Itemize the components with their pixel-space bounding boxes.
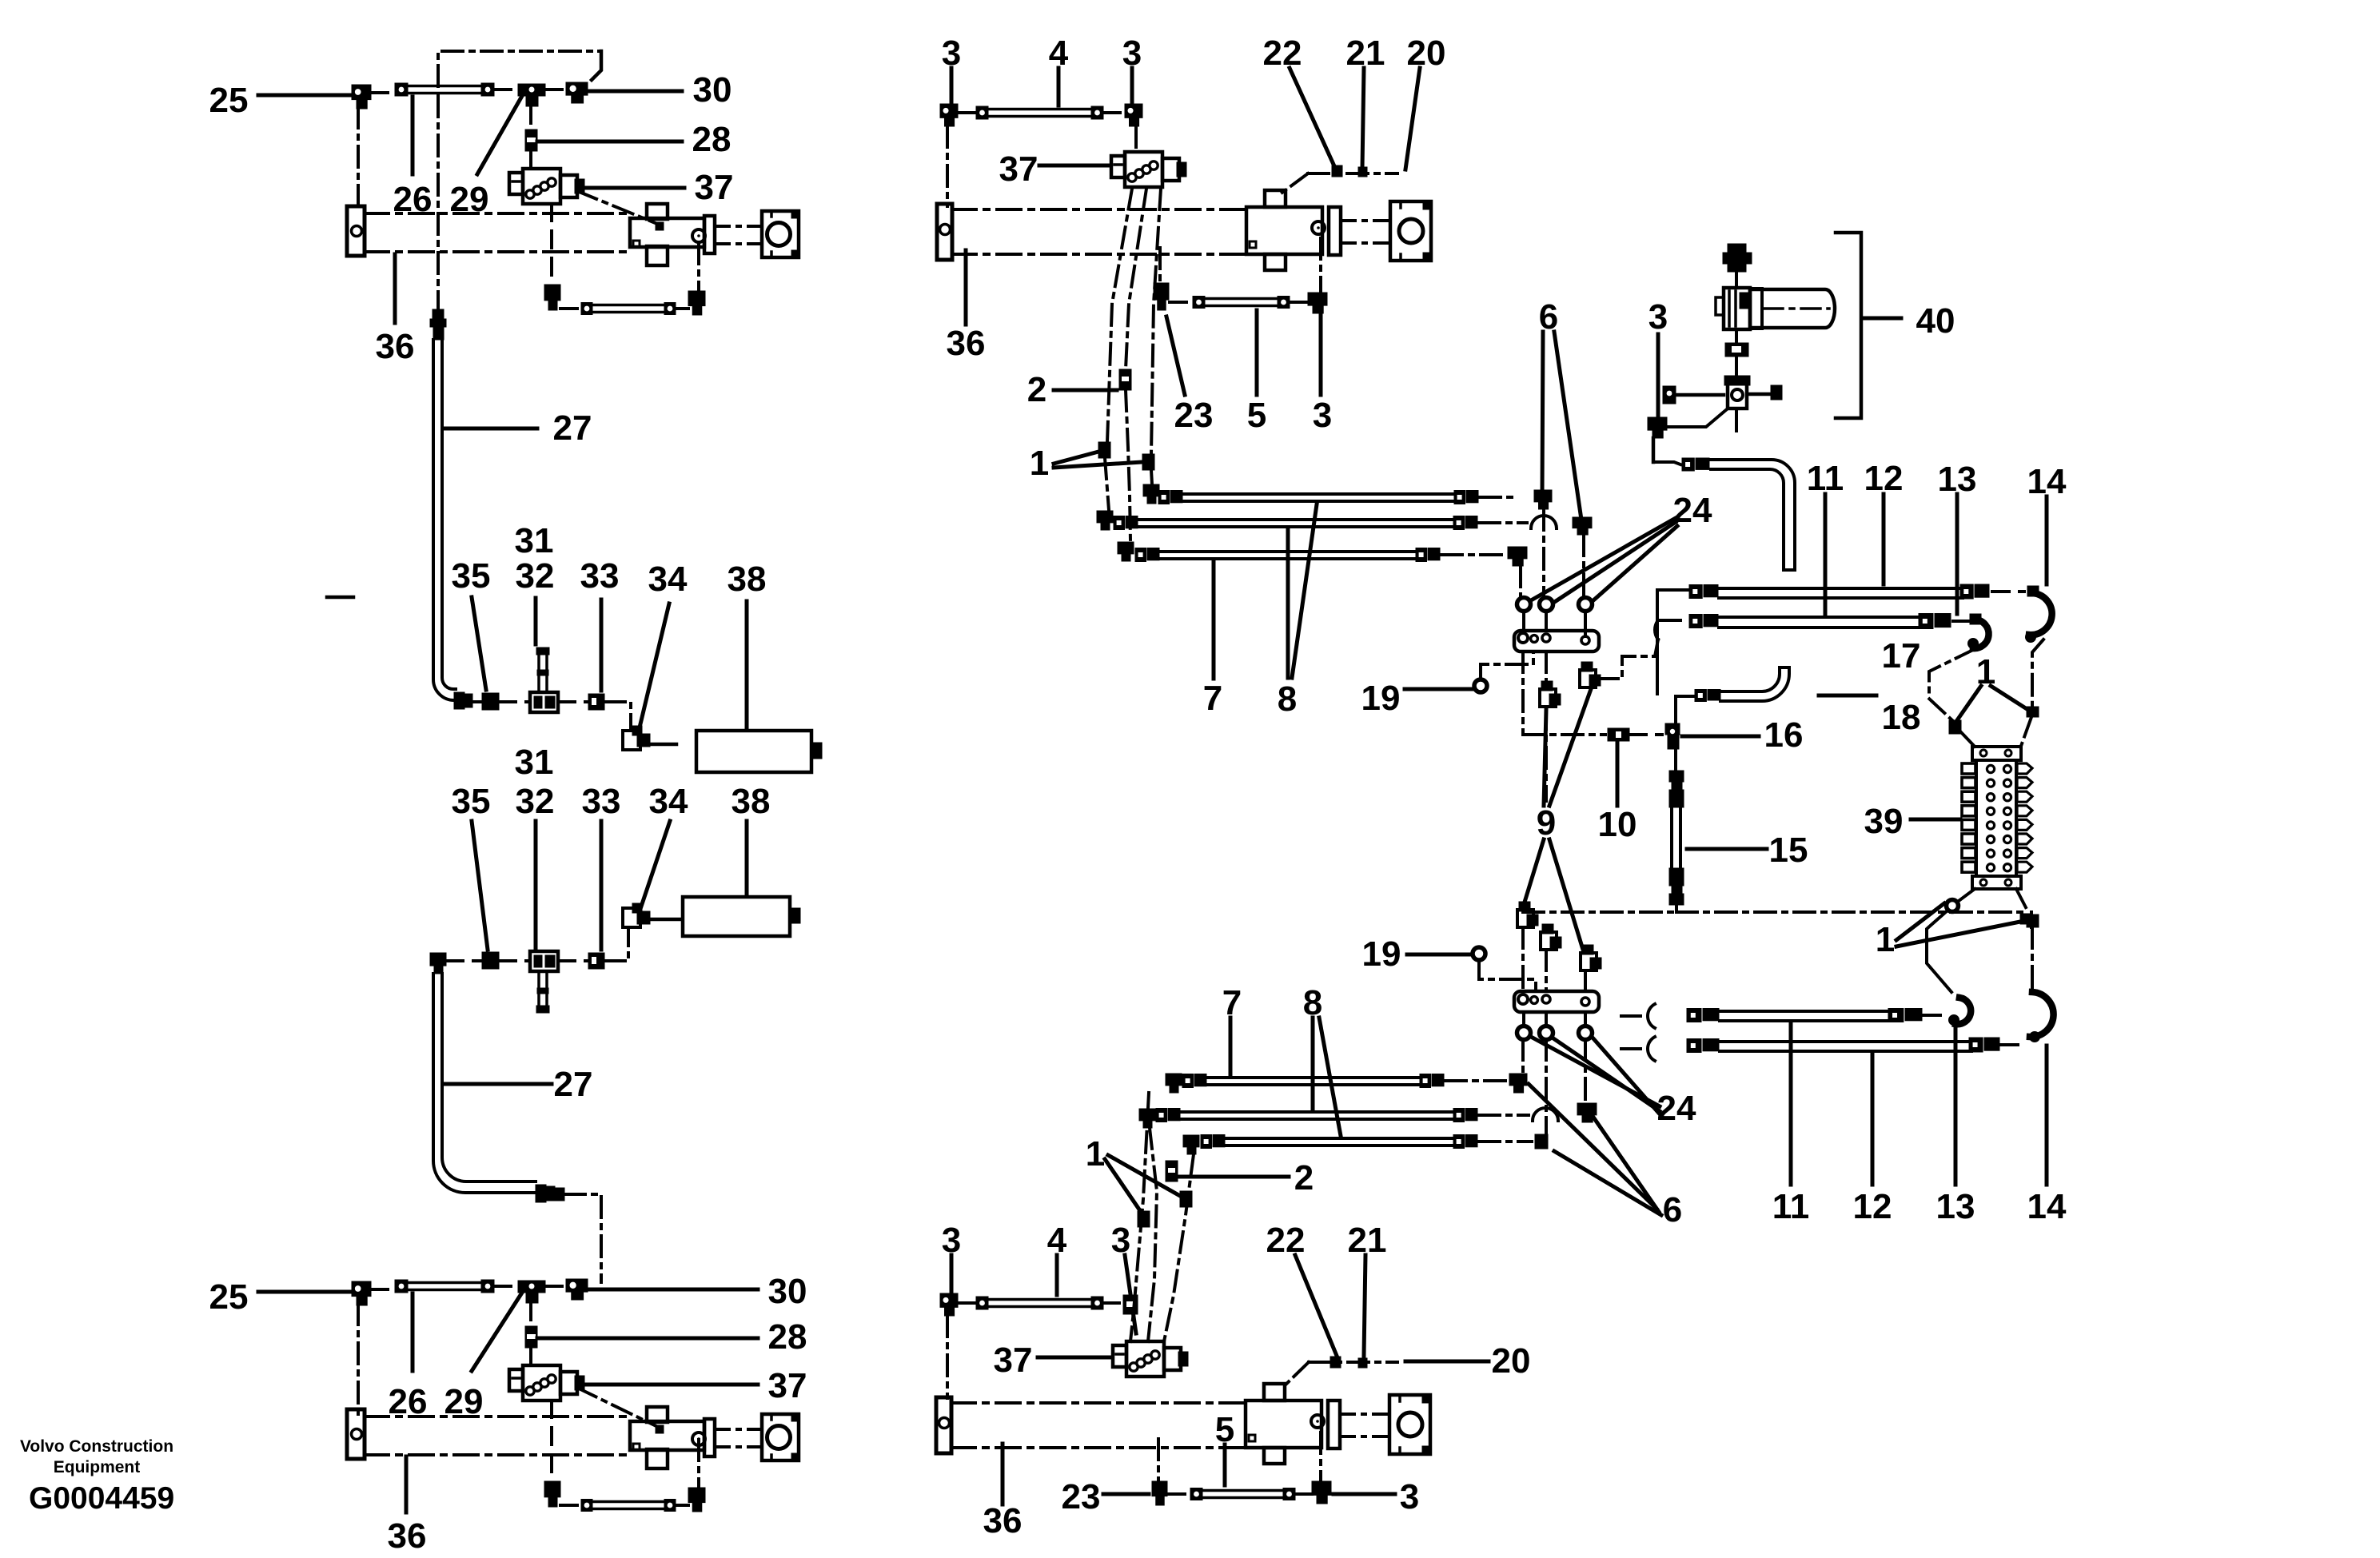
- leader line to 37: [577, 1383, 758, 1387]
- leader line 12: [1871, 1053, 1875, 1185]
- wire x1934 below elbow: [1545, 708, 1548, 801]
- leader line 7: [1229, 1018, 1233, 1074]
- svg-text:16: 16: [1764, 715, 1804, 755]
- svg-text:25: 25: [209, 1277, 249, 1317]
- leader line to 20: [1405, 1360, 1489, 1364]
- fitting 1 (lower block right): [2027, 914, 2039, 927]
- cylinder (BR) port boss: [1311, 1415, 1324, 1428]
- cylinder (BR) rod-end solid section: [1246, 1401, 1322, 1448]
- leader line 24c: [1593, 1038, 1661, 1116]
- svg-text:24: 24: [1657, 1089, 1696, 1128]
- crossover arc: [1531, 516, 1557, 528]
- lever 31 (TL): [537, 652, 540, 692]
- svg-text:Equipment: Equipment: [54, 1458, 141, 1476]
- wire dash elbow-tube (TL): [560, 307, 581, 310]
- leader line 39: [1911, 818, 1960, 822]
- wire drop from rod boss (BL): [697, 1440, 700, 1488]
- leader line 23: [1166, 317, 1185, 395]
- cylinder (BL) rod clevis: [762, 1414, 799, 1460]
- wire pilot dash row (TR): [1308, 172, 1397, 175]
- wire dash to arc: [1479, 521, 1527, 524]
- tee fitting 29 (TL): [518, 84, 545, 96]
- leader line to 28: [537, 1337, 758, 1341]
- wire stub2: [1621, 1047, 1640, 1050]
- wire dash 28-valve: [529, 1348, 532, 1365]
- wire to rod boss: [1319, 1432, 1322, 1481]
- hook hose 14 (lower): [2030, 992, 2054, 1037]
- grommet 24 c: [1579, 598, 1593, 612]
- wire dash to arc: [1479, 1114, 1529, 1117]
- wire dash: [958, 1301, 976, 1305]
- wire stem: [1735, 273, 1738, 288]
- svg-text:33: 33: [582, 782, 621, 821]
- leader line 5: [1223, 1444, 1227, 1485]
- elbow fitting 9b (upper): [1580, 670, 1596, 687]
- elbow tail: [1652, 438, 1656, 462]
- leader line 29: [472, 1293, 522, 1371]
- leader line 9 down-right: [1549, 839, 1583, 950]
- fittings 22/21 on pilot line (TR): [1332, 165, 1342, 177]
- cartridge centerline: [1764, 307, 1829, 310]
- leader line 7: [1212, 562, 1216, 679]
- leader line 14: [2045, 496, 2049, 584]
- path 13 to block: [1929, 649, 1975, 721]
- leader line 1a: [1054, 452, 1098, 464]
- svg-text:22: 22: [1263, 34, 1302, 73]
- svg-text:37: 37: [768, 1366, 807, 1405]
- hose 7 elbow: [1118, 542, 1134, 554]
- three pilot lines valve to hoses (TR): [1107, 189, 1132, 442]
- cylinder (TR) barrel phantom bottom edge: [952, 253, 1247, 256]
- cylinder (BR) barrel phantom top edge: [951, 1401, 1246, 1405]
- grommet 24 c (lower): [1579, 1026, 1593, 1040]
- leader line 35: [472, 597, 486, 690]
- svg-text:27: 27: [554, 1065, 593, 1104]
- leader line 24a: [1531, 518, 1676, 600]
- filter breather cap: [1728, 244, 1746, 253]
- wire dash to fitting: [1479, 1140, 1532, 1143]
- elbow fitting 25 (TL): [352, 85, 371, 100]
- hook hose 14 (upper): [2029, 593, 2052, 635]
- leader line 36: [405, 1456, 409, 1512]
- cylinder (BL) end cap: [347, 1409, 365, 1459]
- wire dash 32-33 (BL): [558, 959, 588, 962]
- cylinder (BL) piston rod phantom: [715, 1428, 762, 1431]
- cylinder (TR) rod clevis: [1390, 201, 1431, 261]
- leader line 3R: [1125, 1255, 1136, 1333]
- cylinder (TL) clamp bracket: [647, 204, 668, 219]
- leader line 15: [1687, 847, 1767, 851]
- wire valve drop to elbow (TL): [550, 204, 553, 285]
- elbow fitting 3 (BR tube left): [940, 1293, 958, 1307]
- wire into hose 12: [1660, 619, 1685, 622]
- wire dash: [1290, 301, 1308, 304]
- hose 12 (upper): [1689, 615, 1702, 628]
- wire dash T29-elbow30: [545, 88, 566, 91]
- wire corner 33-34 (TL): [604, 702, 631, 729]
- elbow fitting 23 (TR): [1154, 283, 1169, 300]
- bulkhead plate (upper): [1514, 631, 1599, 651]
- leader line 34: [640, 604, 669, 727]
- wire drop to valve (TR): [1134, 126, 1138, 152]
- leader line 8 to bottom: [1319, 1018, 1341, 1136]
- leader line 1b: [1108, 1155, 1180, 1196]
- row y1141: [1523, 910, 1676, 914]
- mounting bracket phantom (TL): [438, 51, 601, 86]
- wire dash: [1103, 111, 1125, 114]
- fitting 35 (TL): [482, 693, 499, 710]
- svg-text:23: 23: [1062, 1477, 1101, 1516]
- elbow fitting 3 (TR tube left): [940, 104, 958, 118]
- port marker on rod section (TL): [656, 222, 664, 230]
- svg-text:23: 23: [1174, 396, 1214, 435]
- grommet 24 a (lower): [1517, 1026, 1531, 1040]
- wire dash: [1103, 1301, 1119, 1305]
- svg-text:20: 20: [1492, 1341, 1531, 1381]
- grommet 24 a: [1517, 598, 1531, 612]
- boundary arcs left of hoses (lower): [1648, 1004, 1655, 1028]
- svg-text:8: 8: [1278, 679, 1297, 719]
- svg-text:2: 2: [1294, 1158, 1314, 1197]
- svg-text:3: 3: [1400, 1477, 1419, 1516]
- svg-text:37: 37: [695, 168, 734, 207]
- hose 27 (TL): [433, 340, 456, 700]
- cylinder (TL) gland plate: [704, 216, 715, 253]
- leader line 19: [1407, 953, 1471, 957]
- svg-text:20: 20: [1407, 34, 1446, 73]
- leader line 31/32: [534, 598, 538, 644]
- wire cyl drop to 23: [1157, 1439, 1160, 1481]
- leader line 38: [745, 601, 749, 727]
- leader line 16: [1682, 735, 1759, 739]
- svg-text:36: 36: [983, 1501, 1023, 1540]
- cylinder (BL) barrel phantom top edge: [365, 1415, 632, 1418]
- cylinder (TL) rod-end solid section: [630, 218, 704, 247]
- svg-text:10: 10: [1598, 805, 1637, 844]
- elbow fitting (BL lower tube right): [688, 1488, 705, 1503]
- leader line 6b: [1593, 1116, 1659, 1212]
- fitting 1b (TR): [1142, 454, 1154, 470]
- tee fitting 29 (BL): [518, 1281, 545, 1293]
- wire 1b to hose A elbow: [1151, 470, 1152, 484]
- leader line 23: [1103, 1492, 1149, 1496]
- wire x1934 to plate: [1545, 950, 1548, 991]
- svg-text:39: 39: [1864, 802, 1904, 841]
- svg-text:9: 9: [1537, 803, 1556, 843]
- elbow fitting 34 (BL): [623, 908, 640, 927]
- leader line 10: [1616, 743, 1620, 806]
- cylinder (TR) end cap: [937, 204, 952, 260]
- leader line 33: [600, 821, 604, 950]
- tube 5 under cylinder (BL): [581, 1500, 592, 1512]
- block top cap: [1972, 747, 2021, 760]
- valve 37 (BL): [523, 1365, 560, 1401]
- cylinder (BR) barrel phantom bottom edge: [951, 1446, 1246, 1449]
- svg-text:31: 31: [515, 743, 554, 782]
- leader line 6 up a: [1542, 332, 1543, 496]
- svg-text:32: 32: [516, 782, 555, 821]
- link 16 to hose 18: [1676, 696, 1694, 723]
- valve 37 (TL): [523, 169, 560, 204]
- cylinder (TL) end cap: [347, 206, 365, 256]
- wire x1983 to plate: [1584, 970, 1587, 991]
- cylinder (TL) piston rod phantom: [715, 225, 762, 228]
- svg-text:1: 1: [1030, 444, 1049, 483]
- elbow fitting 3 (BR below): [1312, 1481, 1331, 1495]
- wire dash: [1295, 1492, 1312, 1496]
- svg-text:14: 14: [2027, 1187, 2067, 1226]
- wire dash T29-elbow30: [545, 1285, 566, 1288]
- leader line 9 up-left: [1544, 710, 1546, 806]
- leader line 3R: [1130, 68, 1134, 104]
- fitting (x2542): [2027, 707, 2039, 717]
- grommet 24 b (lower): [1540, 1026, 1553, 1040]
- fitting 1b (BR): [1180, 1191, 1192, 1207]
- fitting 1 left (upper block): [1949, 720, 1961, 734]
- hose 12 (lower): [1687, 1039, 1701, 1053]
- cylinder (BL) rod-end solid section: [630, 1421, 704, 1450]
- tee fitting (filter base): [1728, 381, 1747, 408]
- cylinder (TR) rod-end solid section: [1246, 207, 1322, 254]
- fitting 9b (lower): [1541, 932, 1557, 950]
- link 34-38 (BL): [650, 918, 680, 922]
- three pilot lines hoses to valve (BR): [1130, 1093, 1149, 1341]
- svg-text:35: 35: [452, 556, 491, 596]
- leader line 1b: [1991, 686, 2028, 710]
- hose 7 elbow (lower): [1183, 1135, 1199, 1147]
- wire dash 25-tube: [371, 91, 395, 94]
- leader line 22: [1295, 1255, 1337, 1356]
- block section 3: [1962, 791, 1975, 802]
- valve 31/32 (TL): [530, 692, 558, 712]
- hose 17: [1711, 460, 1795, 570]
- wire down to hook14 region: [2030, 912, 2033, 927]
- leader line 17/18: [1819, 694, 1876, 698]
- elbow fitting 9a (upper): [1540, 689, 1556, 707]
- leader line 26: [411, 97, 415, 174]
- fitting 1a (TR): [1098, 442, 1110, 458]
- cylinder (TL) barrel phantom bottom edge: [365, 250, 632, 253]
- leader line 12: [1882, 494, 1886, 584]
- leader line 8 to top: [1292, 504, 1317, 678]
- hook hose 13 (upper): [1973, 620, 1989, 648]
- fitting 3 right (BR): [1123, 1295, 1138, 1314]
- cylinder (TR) clamp bracket: [1265, 190, 1286, 207]
- svg-text:36: 36: [947, 324, 986, 363]
- leader line to 30: [588, 1288, 758, 1292]
- leader line 6c: [1554, 1151, 1661, 1215]
- elbow fitting (BL lower tube left): [544, 1481, 560, 1497]
- wire 1a to hose B elbow: [1105, 458, 1109, 510]
- wire pilot dash row (BR): [1309, 1361, 1397, 1364]
- hook hose 13 (lower): [1955, 998, 1971, 1024]
- wire main drop line (TL): [437, 96, 440, 308]
- boundary L for hose 11: [1657, 590, 1688, 694]
- port plug right: [1771, 385, 1782, 400]
- wire drop to cylinder (TR): [946, 126, 949, 206]
- wire 19 link: [1481, 651, 1533, 678]
- wire junction dash row (BL): [446, 959, 483, 962]
- fitting 2 (BR): [1166, 1161, 1178, 1181]
- leader line 36: [1001, 1444, 1005, 1504]
- wire dash: [1953, 620, 1969, 623]
- svg-text:30: 30: [693, 70, 732, 110]
- leader line 1b: [1896, 921, 2024, 946]
- svg-text:37: 37: [994, 1341, 1033, 1380]
- tube 5 (TR): [1193, 297, 1205, 309]
- svg-text:31: 31: [515, 521, 554, 560]
- elbow fitting 25 (BL): [352, 1281, 371, 1297]
- wire pilot to clamp (BR): [1281, 1362, 1309, 1389]
- wire dash 25-tube: [371, 1288, 395, 1291]
- cylinder (BL) gland plate: [704, 1419, 715, 1456]
- wire to rod boss: [1319, 238, 1322, 293]
- wire valve to clamp (TL): [577, 191, 661, 225]
- wire 15 to row: [1675, 905, 1678, 912]
- leader line 4: [1057, 68, 1061, 106]
- leader line 40: [1863, 317, 1901, 321]
- wire row y919: [1523, 733, 1605, 736]
- leader line to 37: [1039, 164, 1110, 168]
- leader line 3L: [950, 68, 954, 104]
- elbow fitting (TL lower tube right): [688, 291, 705, 306]
- corner elbow (x1934 line): [1534, 490, 1552, 502]
- block section 4: [1962, 806, 1975, 816]
- svg-text:30: 30: [768, 1272, 807, 1311]
- svg-text:34: 34: [649, 782, 688, 821]
- hose 18: [1720, 667, 1789, 701]
- leader line 14: [2045, 1046, 2049, 1185]
- svg-text:28: 28: [768, 1317, 807, 1357]
- wire into block: [1960, 731, 1976, 748]
- cylinder (TR) piston rod phantom: [1341, 219, 1390, 222]
- wire junction dash row (TL): [472, 700, 483, 703]
- filter head: [1724, 288, 1750, 329]
- cylinder (BR) piston rod phantom: [1340, 1413, 1389, 1416]
- fitting 9c (lower): [1581, 953, 1597, 970]
- leader line 24b: [1553, 522, 1676, 603]
- block bottom cap: [1972, 876, 2021, 889]
- leader line 24c: [1593, 526, 1677, 601]
- leader line to 2: [1054, 389, 1117, 392]
- wire dash: [1992, 590, 2024, 593]
- leader line 20: [1405, 68, 1420, 169]
- wire x1934 drop: [1542, 509, 1545, 596]
- svg-text:33: 33: [580, 556, 620, 596]
- wire drop to cylinder (BR): [946, 1316, 949, 1398]
- hose 8a elbow: [1143, 484, 1159, 496]
- hose 18 fitting: [1695, 690, 1706, 702]
- wire x1983 to hoseB: [1584, 1039, 1587, 1103]
- corner elbow 6a (lower): [1509, 1074, 1527, 1086]
- svg-text:32: 32: [516, 556, 555, 596]
- svg-text:3: 3: [1648, 297, 1668, 337]
- cylinder (BL) port boss: [692, 1432, 705, 1445]
- svg-text:27: 27: [553, 408, 592, 448]
- svg-text:38: 38: [728, 560, 767, 599]
- block section 8: [1962, 862, 1975, 872]
- leader line 3: [1319, 315, 1323, 395]
- svg-text:35: 35: [452, 782, 491, 821]
- tube 5 under cylinder (TL): [581, 303, 592, 315]
- block section 5: [1962, 819, 1975, 830]
- cylinder (TR) port boss: [1312, 221, 1325, 234]
- elbow fitting 23 (BR): [1152, 1481, 1167, 1496]
- block section 7: [1962, 848, 1975, 859]
- crossover arc (lower): [1533, 1108, 1558, 1121]
- wire drop from elbow 25 (BL): [357, 1304, 360, 1417]
- wire dash: [1168, 1492, 1190, 1496]
- wire dash: [958, 111, 976, 114]
- wire stub: [1621, 1014, 1640, 1018]
- wire stem: [1735, 330, 1738, 343]
- svg-text:17: 17: [1882, 636, 1921, 675]
- svg-text:40: 40: [1916, 301, 1955, 341]
- leader line 1a: [1105, 1159, 1139, 1209]
- leader line 38: [745, 821, 749, 894]
- plug 19 (upper): [1474, 679, 1487, 692]
- svg-text:3: 3: [1313, 396, 1332, 435]
- svg-text:28: 28: [692, 120, 732, 159]
- leader line to elbow 25: [258, 94, 350, 98]
- wire 19 link: [1479, 962, 1536, 991]
- leader line 33: [600, 600, 604, 691]
- fitting 9a (lower): [1517, 910, 1533, 927]
- wire x1984 drop: [1582, 535, 1585, 596]
- elbow fitting (TL lower tube left): [544, 285, 560, 301]
- hose 27 end fitting (TL): [454, 692, 464, 709]
- link 34-38 (TL): [650, 743, 676, 747]
- wire valve to clamp (BL): [577, 1388, 661, 1428]
- fitting 33 (BL): [588, 953, 604, 969]
- leader line 34: [641, 821, 670, 907]
- svg-text:6: 6: [1663, 1190, 1682, 1229]
- hose 27 end fitting (BL): [536, 1185, 546, 1202]
- leader line 6a: [1529, 1084, 1656, 1209]
- wire dash to corner: [1445, 1079, 1508, 1082]
- leader line 8 to middle: [1286, 530, 1290, 678]
- leader line 27: [445, 1082, 552, 1086]
- hose 8b elbow: [1097, 511, 1113, 523]
- wire dash 10-16: [1629, 733, 1662, 736]
- wire x1905 to plate: [1521, 927, 1525, 991]
- wire x1934 below plate: [1545, 651, 1548, 687]
- leader line 4: [1055, 1255, 1059, 1295]
- cylinder (BL) barrel phantom bottom edge: [365, 1453, 632, 1456]
- wire dash 28-valve: [529, 151, 532, 169]
- link: [1677, 393, 1724, 397]
- wire dash 32-33 (TL): [558, 700, 588, 703]
- hose 11 (lower): [1687, 1009, 1701, 1022]
- svg-text:1: 1: [1086, 1134, 1105, 1173]
- leader line to 37: [1038, 1356, 1111, 1360]
- wire valve drop to elbow (BL): [550, 1401, 553, 1481]
- wire dash to corner: [1480, 496, 1517, 499]
- svg-text:5: 5: [1247, 396, 1266, 435]
- valve 31/32 (BL): [530, 951, 558, 971]
- wire drop from elbow 25: [357, 107, 360, 213]
- wire down to hook 14: [2031, 927, 2034, 987]
- leader line 1b: [1054, 462, 1142, 468]
- leader line 6 up b: [1554, 332, 1581, 520]
- wire dash tube-elbow right (TL): [676, 307, 688, 310]
- tube 4 (BR): [976, 1297, 988, 1309]
- lever 31 (BL): [537, 971, 540, 1009]
- svg-text:11: 11: [1772, 1187, 1810, 1226]
- leader line 29: [477, 96, 522, 174]
- leader line 1a: [1896, 903, 1944, 940]
- tee fitting 16: [1665, 723, 1680, 735]
